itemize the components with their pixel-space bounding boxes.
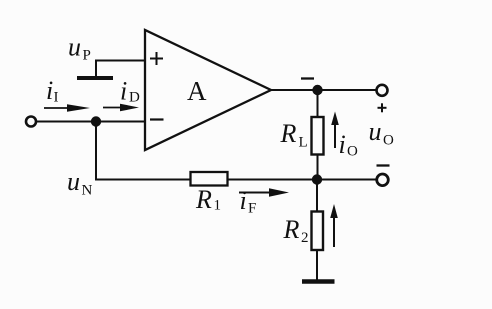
label RL — [280, 119, 308, 151]
wire: input terminal to inverting input — [37, 121, 146, 123]
svg-text:D: D — [129, 90, 140, 106]
svg-text:I: I — [54, 90, 59, 106]
label i_F — [240, 186, 257, 217]
ground (bottom bar) — [302, 279, 335, 284]
ground (u_P reference bar) — [77, 76, 113, 80]
wire: RL to lower node — [317, 155, 319, 180]
input terminal — [26, 117, 36, 127]
wire: node down to u_N line — [95, 122, 97, 180]
label + (output plus polarity) — [378, 103, 387, 112]
svg-text:2: 2 — [301, 230, 309, 246]
junction node (op-amp output) — [312, 85, 322, 95]
svg-text:u: u — [67, 167, 80, 196]
current arrow i_D — [103, 104, 139, 112]
wire: output node to RL — [317, 90, 319, 117]
svg-text:i: i — [240, 186, 247, 215]
svg-text:A: A — [187, 76, 207, 106]
resistor R2 — [312, 212, 324, 251]
svg-text:i: i — [339, 130, 346, 159]
label u_P — [68, 33, 91, 64]
svg-text:1: 1 — [214, 198, 222, 214]
label - (output minus polarity) — [377, 164, 390, 166]
label R2 — [283, 215, 309, 246]
wire: lower node to R2 — [316, 180, 318, 212]
wire: R1 to output node — [229, 179, 378, 181]
junction node (lower output) — [312, 174, 322, 184]
current arrow beside R2 — [330, 204, 338, 247]
svg-text:F: F — [248, 201, 256, 217]
label u_N — [67, 167, 93, 199]
svg-text:u: u — [68, 33, 81, 62]
wire: u_N node to R1 — [95, 179, 190, 181]
svg-text:N: N — [82, 183, 93, 199]
wire: + input to ground stub — [96, 61, 145, 78]
op-amp - input pin mark — [150, 118, 164, 120]
label u_O — [369, 117, 395, 149]
label i_D — [120, 77, 140, 106]
output + terminal — [377, 85, 388, 96]
current arrow i_I — [44, 104, 90, 112]
svg-text:R: R — [283, 215, 300, 244]
resistor R1 — [191, 172, 228, 186]
current arrow i_F — [239, 188, 289, 196]
label i_I — [46, 76, 59, 106]
label R1 — [195, 185, 221, 214]
op-amp A — [145, 30, 271, 150]
wire: op-amp output to + terminal — [271, 89, 377, 91]
label - (output node sign) — [301, 77, 314, 79]
svg-text:O: O — [347, 144, 358, 160]
op-amp + input pin mark — [150, 52, 163, 65]
svg-text:i: i — [120, 77, 127, 106]
output - terminal — [377, 174, 389, 186]
svg-text:P: P — [83, 48, 91, 64]
svg-text:R: R — [195, 185, 212, 214]
junction node (inverting input / feedback) — [91, 116, 101, 126]
resistor RL — [312, 117, 324, 155]
svg-text:L: L — [299, 135, 308, 151]
svg-text:i: i — [46, 76, 53, 105]
label i_O — [339, 130, 359, 160]
svg-text:O: O — [383, 133, 394, 149]
svg-text:R: R — [280, 119, 297, 148]
current arrow i_O — [331, 112, 339, 149]
svg-text:u: u — [369, 117, 382, 146]
wire: R2 to ground — [316, 251, 318, 282]
